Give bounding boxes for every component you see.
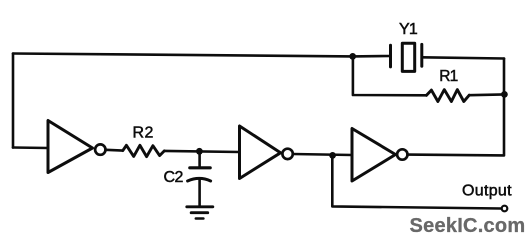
wire node C down to C2: [198, 151, 201, 166]
wire inverter U1 input: [13, 146, 48, 149]
wire C2 to ground: [198, 180, 201, 206]
ground bar 1: [187, 205, 213, 208]
node C junction dot: [196, 148, 203, 155]
wire left vertical: [12, 54, 15, 148]
ground bar 2: [191, 211, 208, 214]
resistor R1: [427, 90, 470, 102]
node A junction dot: [349, 53, 356, 60]
svg-text:R2: R2: [133, 125, 154, 142]
wire U1 output to R2: [106, 149, 123, 152]
capacitor C2 bottom curved plate: [188, 178, 211, 181]
svg-text:SeekIC.com: SeekIC.com: [410, 215, 526, 237]
crystal Y1 body rectangle: [402, 43, 414, 71]
wire R1 to node B: [469, 93, 504, 96]
crystal Y1 left plate: [389, 45, 392, 67]
svg-text:R1: R1: [439, 68, 457, 85]
wire node A to crystal Y1: [353, 55, 390, 58]
inverter U1 bubble: [95, 144, 105, 154]
inverter U2 triangle: [240, 126, 281, 179]
svg-text:Y1: Y1: [399, 21, 418, 38]
wire top feedback rail: [13, 54, 353, 57]
node B junction dot: [501, 91, 508, 98]
resistor R2: [123, 145, 165, 156]
inverter U1 triangle: [48, 121, 93, 173]
wire crystal Y1 to right corner: [422, 57, 504, 58]
wire node D down to output line: [332, 155, 501, 208]
inverter U3 bubble: [397, 149, 407, 159]
svg-text:C2: C2: [164, 169, 184, 186]
inverter U3 triangle: [352, 129, 396, 182]
wire R2 to node C to inverter U2 input: [164, 151, 239, 152]
inverter U2 bubble: [282, 149, 292, 159]
wire U3 output to right vertical: [408, 59, 505, 156]
crystal Y1 right plate: [420, 44, 423, 66]
output terminal circle: [502, 206, 508, 212]
wire node A down to R1 branch: [353, 56, 427, 95]
node D junction dot: [329, 152, 336, 159]
ground bar 3: [196, 217, 204, 220]
svg-text:Output: Output: [462, 182, 512, 199]
capacitor C2 top plate: [190, 166, 210, 169]
wire U2 output to node D to inverter U3 input: [293, 154, 352, 155]
